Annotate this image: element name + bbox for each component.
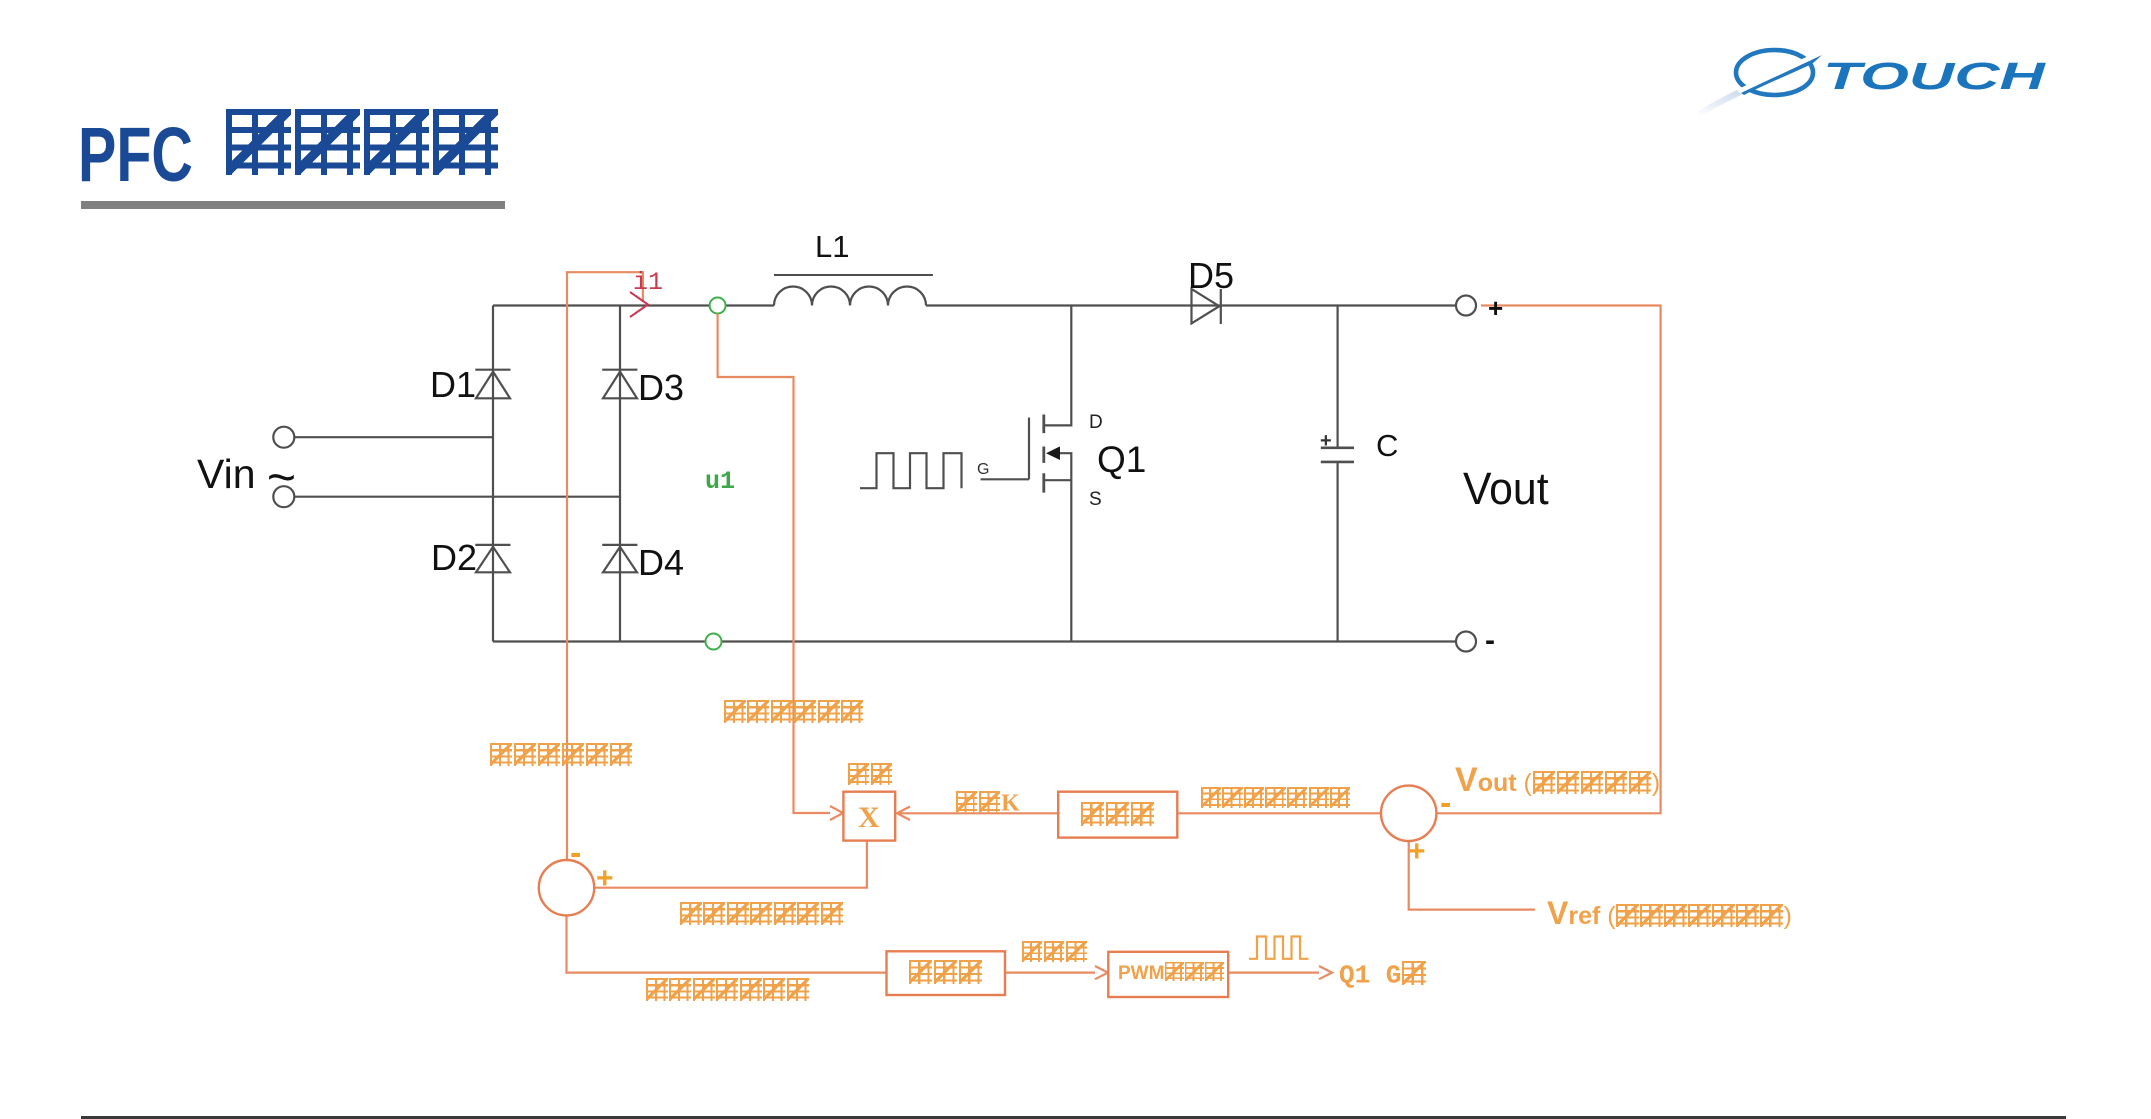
wire bridge left column [492, 306, 494, 642]
label summer2 plus [1408, 837, 1426, 867]
wire K into multiplier [897, 812, 1058, 814]
label Q1 gate CJK [1339, 961, 1426, 988]
capacitor C plates [1321, 448, 1354, 462]
label duty cycle CJK [1021, 941, 1087, 964]
label C [1376, 430, 1398, 461]
label S pin [1089, 490, 1102, 509]
diode D4 [602, 545, 637, 572]
block current loop [887, 951, 1006, 995]
node u1 bottom green [706, 634, 722, 650]
arrow to Q1 gate label [1228, 966, 1332, 979]
label Vout value orange [1455, 763, 1660, 797]
terminal Vin top [273, 427, 294, 448]
transistor Q1 channel segments [1042, 415, 1045, 493]
label D3 [638, 370, 684, 406]
label Q1 [1097, 441, 1146, 478]
capacitor C branch bottom [1336, 462, 1338, 642]
block voltage loop [1058, 792, 1177, 838]
wire Vout feedback [1437, 306, 1661, 814]
terminal Vin bottom [273, 486, 294, 507]
wire current reference from multiplier [594, 841, 867, 888]
label input current sample CJK [489, 743, 633, 769]
transistor Q1 gate lead [981, 478, 1029, 480]
label summer1 minus [570, 836, 581, 870]
wire current error [567, 916, 887, 973]
label current loop CJK [908, 959, 983, 985]
label voltage loop CJK [1080, 801, 1155, 827]
label input current reference CJK [679, 902, 844, 928]
wire i1 current sense loop [567, 272, 643, 860]
title text PFC block diagram [78, 117, 193, 194]
node u1 top green [710, 298, 726, 314]
arrow i1 red chevron [630, 292, 648, 317]
label output minus [1485, 626, 1495, 656]
pwm output square wave orange [1249, 937, 1309, 959]
block PWM generator [1108, 952, 1228, 997]
transistor Q1 source wire [1044, 453, 1072, 641]
wire input top [295, 436, 494, 438]
title underline [81, 201, 505, 209]
label D1 [430, 367, 476, 403]
transistor Q1 gate bar [1028, 418, 1030, 480]
inductor L1 bar [774, 274, 933, 276]
summer 2 circle [1381, 786, 1436, 841]
label plus cap [1320, 431, 1332, 451]
label i1 red [633, 270, 663, 295]
label D5 [1188, 258, 1234, 294]
label D4 [638, 545, 684, 581]
diode D2 [475, 545, 510, 572]
footer line [81, 1116, 2066, 1119]
label G pin [977, 462, 989, 478]
transistor Q1 body arrow [1046, 446, 1060, 460]
arrow into multiplier right [897, 807, 910, 821]
label output plus [1488, 295, 1503, 321]
label D pin [1089, 413, 1103, 432]
logo ellipse [1696, 50, 1822, 116]
arrow into multiplier left [830, 806, 843, 820]
label Vin [197, 452, 296, 502]
label output voltage sample CJK [723, 700, 864, 726]
label D2 [431, 540, 477, 576]
label summer1 plus [596, 864, 614, 894]
diode D3 [602, 370, 637, 399]
summer 1 circle [539, 860, 594, 915]
terminal output plus [1456, 296, 1476, 316]
diode D1 [475, 370, 510, 399]
label X in multiplier [858, 803, 880, 833]
capacitor C branch top [1336, 306, 1338, 448]
wire bottom rail [493, 640, 1456, 642]
arrow into PWM [1005, 966, 1108, 979]
label u1 green [705, 469, 735, 494]
diode D5 [1192, 289, 1221, 324]
inductor L1 coil [774, 287, 926, 306]
title CJK part [224, 108, 500, 180]
label Vout black [1463, 466, 1549, 511]
TOUCH logo text [1823, 58, 2045, 96]
wire top rail [493, 304, 1456, 306]
label output voltage error CJK [1200, 787, 1351, 810]
transistor Q1 drain wire [1044, 306, 1072, 426]
wire output voltage sample [718, 314, 830, 814]
label L1 [815, 231, 849, 262]
block multiplier X [843, 792, 895, 841]
gate drive square wave [860, 453, 962, 488]
wire Vref input [1409, 841, 1535, 909]
terminal output minus [1456, 632, 1476, 652]
wire input bottom [295, 496, 621, 498]
label Vref orange [1547, 897, 1792, 929]
label multiply CJK [847, 763, 893, 788]
label PWM generator [1118, 962, 1225, 983]
label summer2 minus [1440, 786, 1451, 820]
wire bridge right column [619, 306, 621, 642]
wire voltage loop to summer2 [1177, 812, 1380, 814]
label coefficient K CJK [955, 791, 1020, 816]
label input current error CJK [645, 978, 810, 1004]
